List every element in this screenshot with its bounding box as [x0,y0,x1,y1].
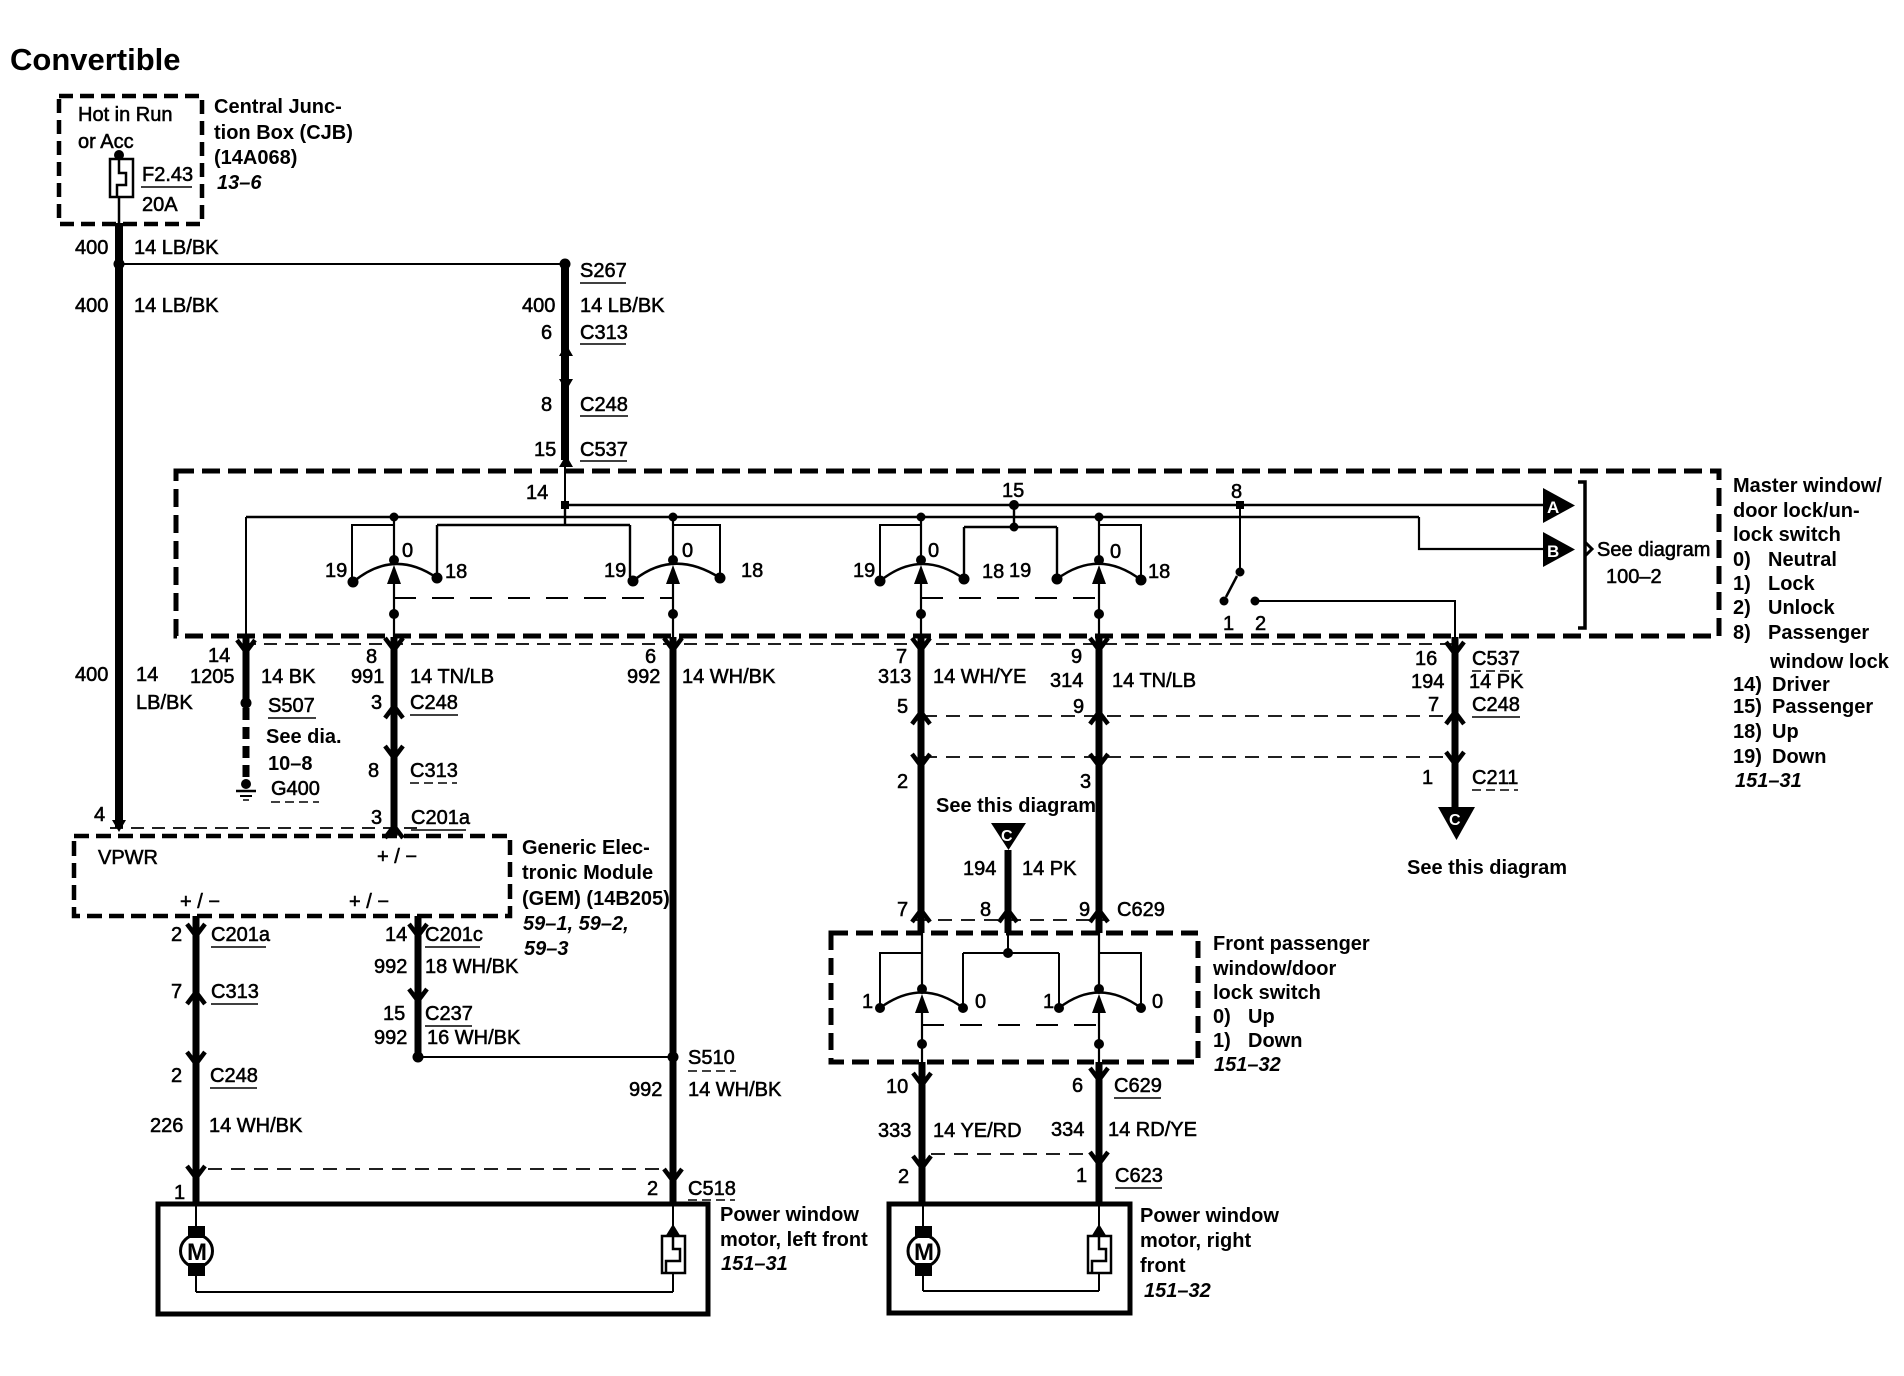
switch SWP1 passenger window (at door) [862,933,986,1062]
wire fuse to junction [118,197,121,223]
Power window motor left front box [158,1204,708,1314]
wire GEM entry arrow [112,820,126,832]
wire arrow up at C537 [559,455,573,467]
connector dashed line pins 2-3 [923,756,1448,758]
fuse F2.43 20A [110,159,133,197]
svg-text:16 WH/BK: 16 WH/BK [427,1027,521,1049]
svg-text:14 WH/YE: 14 WH/YE [933,666,1026,688]
svg-text:+ / −: + / − [349,891,389,913]
Front passenger window/door lock switch dashed box [831,933,1198,1062]
svg-text:151–31: 151–31 [1735,770,1802,792]
svg-text:15: 15 [534,439,556,461]
svg-text:F2.43: F2.43 [142,164,193,186]
svg-text:16: 16 [1415,648,1437,670]
motor M left [181,1206,213,1292]
circuit breaker left motor [662,1206,685,1292]
svg-text:C201c: C201c [425,924,483,946]
svg-text:15): 15) [1733,696,1762,718]
svg-text:2): 2) [1733,597,1751,619]
svg-text:C201a: C201a [411,807,471,829]
node bus A at pin8 [1236,501,1244,509]
svg-text:C629: C629 [1117,899,1165,921]
svg-text:151–31: 151–31 [721,1253,788,1275]
svg-text:3: 3 [371,692,382,714]
motor M right [908,1206,939,1291]
svg-text:14 RD/YE: 14 RD/YE [1108,1119,1197,1141]
svg-text:1205: 1205 [190,666,235,688]
svg-text:S507: S507 [268,695,315,717]
svg-text:C537: C537 [580,439,628,461]
bracket [1578,482,1585,628]
svg-text:C623: C623 [1115,1165,1163,1187]
svg-text:14 WH/BK: 14 WH/BK [682,666,776,688]
svg-text:2: 2 [171,1065,182,1087]
svg-text:992: 992 [374,1027,407,1049]
wire SW4 output 314 14 TN/LB [1090,637,1108,933]
svg-text:8: 8 [368,760,379,782]
svg-text:C248: C248 [210,1065,258,1087]
svg-text:See dia.: See dia. [266,726,342,748]
wire arrow up below C313 [559,344,573,356]
svg-text:400: 400 [522,295,555,317]
svg-text:14: 14 [136,664,158,686]
svg-text:18: 18 [741,560,763,582]
ground G400 [236,779,256,800]
svg-text:Front passenger: Front passenger [1213,933,1370,955]
svg-text:1: 1 [1223,613,1234,635]
svg-text:15: 15 [1002,480,1024,502]
svg-text:14 LB/BK: 14 LB/BK [580,295,665,317]
svg-text:Unlock: Unlock [1768,597,1836,619]
svg-text:14: 14 [385,924,407,946]
svg-text:9: 9 [1073,696,1084,718]
wire pin8 feed connector U (passenger) [963,933,1059,1004]
mechanical link SW1-SW2 [394,597,673,599]
wire 333 14 YE/RD [913,1062,931,1204]
svg-text:Power window: Power window [1140,1205,1279,1227]
svg-text:2: 2 [171,924,182,946]
svg-text:7: 7 [897,899,908,921]
svg-text:0): 0) [1733,549,1751,571]
svg-text:4: 4 [94,804,105,826]
svg-text:window lock: window lock [1769,651,1890,673]
wire pin15 connector U [964,505,1057,577]
svg-text:14 TN/LB: 14 TN/LB [1112,670,1196,692]
svg-text:59–3: 59–3 [524,938,569,960]
svg-text:14 PK: 14 PK [1022,858,1077,880]
svg-text:Master window/: Master window/ [1733,475,1882,497]
svg-text:door lock/un-: door lock/un- [1733,500,1860,522]
switch SW3 lock switch [853,513,1004,638]
svg-text:Up: Up [1772,721,1799,743]
svg-text:333: 333 [878,1120,911,1142]
svg-text:(GEM) (14B205): (GEM) (14B205) [522,888,670,910]
svg-text:14): 14) [1733,674,1762,696]
svg-text:992: 992 [629,1079,662,1101]
svg-text:window/door: window/door [1212,958,1337,980]
svg-text:19: 19 [853,560,875,582]
svg-text:6: 6 [645,646,656,668]
svg-text:S510: S510 [688,1047,735,1069]
svg-text:See diagram: See diagram [1597,539,1710,561]
svg-text:C201a: C201a [211,924,271,946]
svg-text:2: 2 [897,771,908,793]
connector dashed line pins 5-9 [923,715,1448,717]
Generic Electronic Module GEM dashed box [74,836,510,916]
svg-text:226: 226 [150,1115,183,1137]
wire pin 1205 drop inside box [245,517,247,637]
svg-text:Driver: Driver [1772,674,1830,696]
svg-text:10–8: 10–8 [268,753,313,775]
wire bus B jog to arrow B [1419,517,1543,549]
svg-text:14 PK: 14 PK [1469,671,1524,693]
svg-text:1): 1) [1733,573,1751,595]
switch SW4 unlock switch [1009,513,1170,638]
svg-text:19: 19 [604,560,626,582]
svg-text:2: 2 [1255,613,1266,635]
connector line below master switch box [243,643,1460,645]
svg-text:1: 1 [862,991,873,1013]
svg-text:(14A068): (14A068) [214,147,297,169]
svg-text:See this diagram: See this diagram [1407,857,1567,879]
svg-text:13–6: 13–6 [217,172,262,194]
svg-text:151–32: 151–32 [1214,1054,1281,1076]
svg-text:0: 0 [402,540,413,562]
svg-text:313: 313 [878,666,911,688]
svg-text:A: A [1547,498,1559,517]
wire SW3 output 313 14 WH/YE [912,637,930,933]
svg-text:1): 1) [1213,1030,1231,1052]
svg-text:3: 3 [1080,771,1091,793]
svg-text:C537: C537 [1472,648,1520,670]
svg-text:1: 1 [1076,1165,1087,1187]
svg-text:C629: C629 [1114,1075,1162,1097]
svg-text:M: M [914,1239,934,1266]
svg-text:194: 194 [963,858,996,880]
svg-text:19: 19 [325,560,347,582]
svg-text:7: 7 [1428,694,1439,716]
svg-text:194: 194 [1411,671,1444,693]
wire bus A (pin 14 feed) [565,504,1543,507]
wire pin14 connector U [437,505,630,577]
wire arrow down above C248 [559,379,573,391]
node bus A at pin14 [561,501,569,509]
svg-text:15: 15 [383,1003,405,1025]
svg-text:7: 7 [896,646,907,668]
wire SW5 to pin 16 [1255,601,1455,637]
svg-text:front: front [1140,1255,1186,1277]
svg-text:100–2: 100–2 [1606,566,1662,588]
svg-text:C518: C518 [688,1178,736,1200]
wire S507 ground drop [237,637,255,778]
svg-text:9: 9 [1079,899,1090,921]
svg-text:Up: Up [1248,1006,1275,1028]
svg-text:14 LB/BK: 14 LB/BK [134,237,219,259]
svg-text:Hot in Run: Hot in Run [78,104,173,126]
svg-text:9: 9 [1071,646,1082,668]
svg-text:C: C [1449,812,1461,829]
svg-text:14 LB/BK: 14 LB/BK [134,295,219,317]
svg-text:0): 0) [1213,1006,1231,1028]
svg-text:400: 400 [75,295,108,317]
off-page arrow A [1543,488,1575,523]
svg-text:Passenger: Passenger [1768,622,1869,644]
svg-text:8: 8 [1231,481,1242,503]
Central Junction Box (CJB) dashed box [59,96,202,224]
svg-text:18: 18 [445,561,467,583]
svg-text:Lock: Lock [1768,573,1816,595]
wire S267 drop [561,264,569,460]
wire motor link right [923,1290,1099,1292]
off-page connector C (out) [1438,807,1475,840]
svg-text:14 WH/BK: 14 WH/BK [209,1115,303,1137]
svg-text:992: 992 [374,956,407,978]
svg-text:or Acc: or Acc [78,131,134,153]
svg-text:C313: C313 [410,760,458,782]
svg-text:lock switch: lock switch [1733,524,1841,546]
svg-text:6: 6 [541,322,552,344]
mechanical link SWP1-SWP2 [922,1024,1099,1026]
svg-text:0: 0 [1110,541,1121,563]
node S267 [560,259,571,270]
svg-text:14 TN/LB: 14 TN/LB [410,666,494,688]
svg-text:VPWR: VPWR [98,847,158,869]
svg-text:400: 400 [75,664,108,686]
svg-text:C237: C237 [425,1003,473,1025]
svg-text:C313: C313 [211,981,259,1003]
svg-text:Passenger: Passenger [1772,696,1873,718]
wire SW1 output 991 14 TN/LB [385,637,403,838]
svg-text:0: 0 [682,540,693,562]
svg-text:Convertible: Convertible [10,42,181,77]
svg-text:19): 19) [1733,746,1762,768]
svg-text:1: 1 [1043,991,1054,1013]
svg-text:lock switch: lock switch [1213,982,1321,1004]
svg-text:10: 10 [886,1076,908,1098]
svg-text:7: 7 [171,981,182,1003]
svg-text:20A: 20A [142,194,178,216]
svg-text:18: 18 [1148,561,1170,583]
svg-text:motor, left front: motor, left front [720,1229,868,1251]
svg-text:motor, right: motor, right [1140,1230,1251,1252]
svg-text:2: 2 [647,1178,658,1200]
svg-text:8: 8 [541,394,552,416]
wire junction to S267 [119,263,565,265]
svg-text:1: 1 [174,1182,185,1204]
wire bus B [246,516,1419,519]
svg-text:tion Box (CJB): tion Box (CJB) [214,122,353,144]
svg-text:314: 314 [1050,670,1083,692]
wire 400 14 LB/BK left drop to GEM [115,264,123,828]
svg-text:334: 334 [1051,1119,1084,1141]
wire GEM out 14 C201c (right) [409,916,427,1057]
svg-text:18: 18 [982,561,1004,583]
svg-text:6: 6 [1072,1075,1083,1097]
wire 334 14 RD/YE [1090,1062,1108,1204]
svg-text:59–1, 59–2,: 59–1, 59–2, [523,913,629,935]
wire GEM out 2 C201a (left) [187,916,205,1204]
circuit breaker right motor [1088,1206,1111,1291]
svg-text:Generic Elec-: Generic Elec- [522,837,650,859]
node fuse top [114,150,124,160]
svg-text:Down: Down [1772,746,1826,768]
svg-text:LB/BK: LB/BK [136,692,193,714]
node S510 [668,1052,679,1063]
svg-text:C248: C248 [1472,694,1520,716]
wire motor link left [196,1291,673,1293]
svg-text:992: 992 [627,666,660,688]
svg-text:+ / −: + / − [180,891,220,913]
svg-text:Down: Down [1248,1030,1302,1052]
wire link to S510 [418,1056,673,1058]
svg-text:5: 5 [897,696,908,718]
wire SW2 output 992 14 WH/BK [664,637,682,1204]
svg-text:991: 991 [351,666,384,688]
svg-text:8: 8 [366,646,377,668]
svg-text:Central Junc-: Central Junc- [214,96,342,118]
wire pin16 194 14 PK (C537 chain) [1446,637,1464,807]
node pin8 junction [1003,948,1013,958]
switch SW2 passenger window (master) [604,513,763,638]
svg-text:tronic Module: tronic Module [522,862,653,884]
svg-text:151–32: 151–32 [1144,1280,1211,1302]
off-page connector C (in) [991,823,1026,850]
svg-text:18): 18) [1733,721,1762,743]
switch SW5 window lock (1-2) [1220,506,1267,635]
svg-text:Neutral: Neutral [1768,549,1837,571]
svg-text:8): 8) [1733,622,1751,644]
svg-text:See this diagram: See this diagram [936,795,1096,817]
svg-text:0: 0 [975,991,986,1013]
connector line C629 [915,919,1108,921]
connector line above GEM [110,827,425,829]
svg-text:M: M [187,1239,207,1266]
node bus A at pin15 [1009,500,1019,510]
svg-text:C: C [1001,828,1013,845]
svg-text:C313: C313 [580,322,628,344]
connector line C623 [931,1153,1092,1155]
svg-text:19: 19 [1009,560,1031,582]
svg-text:14 WH/BK: 14 WH/BK [688,1079,782,1101]
svg-text:2: 2 [898,1166,909,1188]
svg-text:C248: C248 [410,692,458,714]
switch SWP2 passenger window (second) [1043,933,1163,1062]
svg-text:3: 3 [371,807,382,829]
switch SW1 driver window [325,513,467,638]
off-page arrow B [1543,532,1575,567]
node junction below fuse [114,259,125,270]
svg-text:B: B [1547,542,1559,561]
svg-text:C248: C248 [580,394,628,416]
svg-text:400: 400 [75,237,108,259]
svg-text:14 BK: 14 BK [261,666,316,688]
node C237 end [413,1052,424,1063]
svg-text:18 WH/BK: 18 WH/BK [425,956,519,978]
svg-text:G400: G400 [271,778,320,800]
Master window/door lock/unlock switch dashed box [176,471,1719,636]
wire 194 14 PK [1005,850,1012,933]
svg-text:C211: C211 [1472,767,1518,789]
svg-text:Power window: Power window [720,1204,859,1226]
connector line C518 [208,1168,665,1170]
mechanical link SW3-SW4 [921,597,1099,599]
svg-text:14: 14 [526,482,548,504]
svg-text:8: 8 [980,899,991,921]
Power window motor right front box [889,1204,1130,1313]
svg-text:14 YE/RD: 14 YE/RD [933,1120,1022,1142]
svg-text:14: 14 [208,645,230,667]
svg-text:0: 0 [928,540,939,562]
svg-text:+ / −: + / − [377,846,417,868]
svg-text:S267: S267 [580,260,627,282]
svg-text:0: 0 [1152,991,1163,1013]
svg-text:1: 1 [1422,767,1433,789]
